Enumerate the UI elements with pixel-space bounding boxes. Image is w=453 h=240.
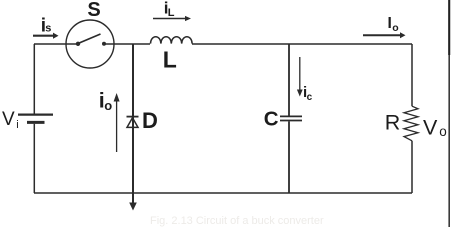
svg-text:Fig. 2.13 Circuit of a buck c: Fig. 2.13 Circuit of a buck converter — [150, 215, 324, 227]
svg-text:V: V — [2, 109, 15, 130]
svg-text:C: C — [264, 108, 279, 131]
svg-text:I: I — [388, 15, 392, 32]
svg-text:S: S — [87, 0, 100, 21]
svg-text:i: i — [16, 119, 18, 131]
svg-text:L: L — [168, 7, 175, 19]
svg-text:o: o — [392, 22, 398, 34]
svg-text:c: c — [307, 92, 313, 103]
svg-text:o: o — [104, 98, 112, 113]
svg-text:o: o — [439, 124, 447, 139]
svg-text:V: V — [423, 115, 438, 139]
svg-text:s: s — [45, 22, 51, 34]
svg-text:D: D — [142, 108, 158, 133]
svg-text:L: L — [163, 47, 177, 73]
svg-text:R: R — [385, 110, 401, 134]
